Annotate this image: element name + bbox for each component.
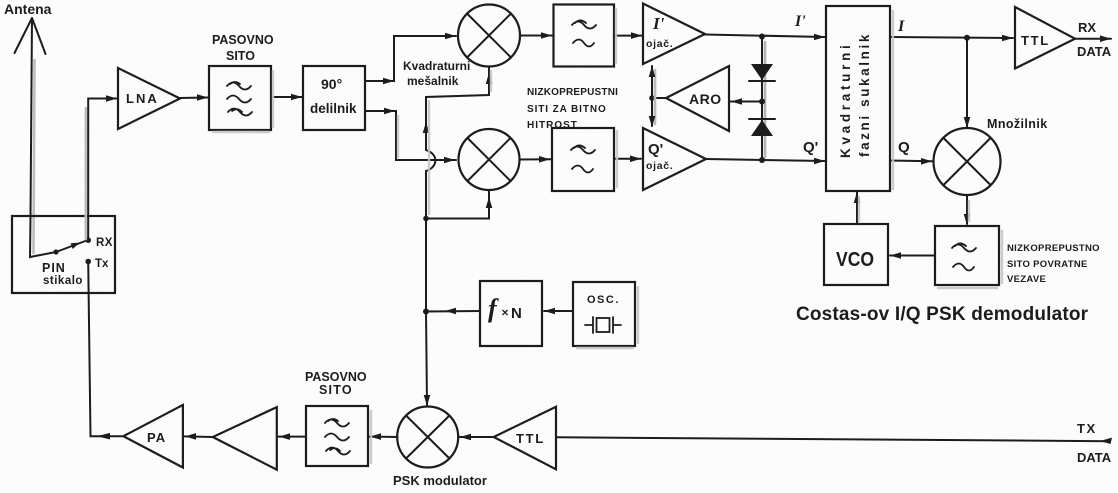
wire I' amp output to phase shifter	[705, 35, 825, 38]
svg-text:I: I	[897, 18, 905, 35]
diode upper (pointing down)	[751, 64, 773, 80]
svg-text:SITO: SITO	[226, 49, 255, 63]
svg-text:TX: TX	[1077, 421, 1097, 436]
wire I output to TTL	[890, 37, 1013, 38]
divider 90 delilnik	[303, 66, 365, 130]
oscillator OSC box	[573, 282, 635, 346]
wire antenna shadow	[34, 60, 35, 253]
svg-text:LNA: LNA	[126, 91, 159, 106]
filter lowpass Q (bit-rate)	[552, 128, 614, 191]
wire driver to PA	[185, 435, 213, 438]
svg-text:SITO POVRATNE: SITO POVRATNE	[1007, 259, 1088, 270]
amplifier PA	[123, 405, 182, 468]
svg-text:Q: Q	[898, 139, 910, 156]
wire divider top output	[365, 36, 456, 81]
filter lowpass I (bit-rate)	[554, 5, 615, 67]
svg-text:PASOVNO: PASOVNO	[212, 33, 274, 47]
node Tx contact	[85, 259, 91, 265]
svg-text:stikalo: stikalo	[43, 275, 83, 287]
svg-text:SITI ZA BITNO: SITI ZA BITNO	[527, 104, 607, 115]
svg-text:Tx: Tx	[95, 258, 109, 270]
wire multiplier to feedback filter	[966, 195, 968, 224]
wire PA to switch Tx	[88, 262, 123, 437]
svg-text:OSC.: OSC.	[587, 294, 620, 306]
node diode mid junction	[759, 99, 765, 105]
mixer upper (quadrature)	[458, 5, 520, 67]
wire Q' amp output to phase shifter	[706, 159, 825, 161]
diode lower (pointing up)	[749, 118, 775, 120]
wire divider bottom output	[365, 111, 456, 160]
wire I filter to I' amp	[614, 35, 642, 37]
phase shifter Kvadraturni fazni sukalnik	[826, 6, 890, 191]
wire antenna into switch	[30, 216, 56, 257]
svg-text:DATA: DATA	[1077, 450, 1112, 465]
wire Q filter to Q' amp	[614, 158, 641, 160]
node switch pivot	[53, 249, 58, 254]
node diode bottom junction	[759, 157, 765, 163]
amplifier ARO (AGC)	[666, 66, 729, 131]
svg-text:NIZKOPREPUSTNO: NIZKOPREPUSTNO	[1007, 243, 1100, 254]
svg-text:PA: PA	[147, 430, 166, 445]
svg-text:ojač.: ojač.	[646, 38, 673, 50]
wire AGC to I' amp	[651, 66, 653, 98]
svg-text:VEZAVE: VEZAVE	[1007, 274, 1046, 285]
svg-text:TTL: TTL	[516, 431, 545, 446]
wire LO to lower mixer	[426, 191, 489, 219]
amplifier Q' ojac	[643, 128, 706, 190]
svg-text:Kvadraturni: Kvadraturni	[838, 42, 853, 158]
wire TX DATA line	[557, 437, 1110, 441]
svg-text:SITO: SITO	[319, 383, 353, 397]
svg-text:90°: 90°	[321, 76, 342, 92]
svg-text:fazni sukalnik: fazni sukalnik	[857, 32, 872, 157]
diode chain vertical wire	[761, 37, 763, 161]
svg-text:Q': Q'	[648, 141, 663, 158]
wire hop over Q RF line	[426, 150, 435, 171]
svg-text:ojač.: ojač.	[646, 160, 673, 172]
wire ARO apex to tap	[652, 97, 666, 99]
wire VCO to phase shifter	[856, 192, 858, 224]
wire bandpass to 90deg divider	[271, 96, 302, 98]
buffer TTL (RX)	[1015, 7, 1075, 69]
filter bandpass PASOVNO SITO (top)	[209, 66, 271, 130]
wire PSK modulator to TX bandpass	[370, 436, 398, 438]
scan ghost edges	[212, 8, 1002, 464]
mixer PSK modulator	[397, 407, 458, 468]
wire lower mixer to Q filter	[520, 158, 552, 160]
wire RX riser shadow	[85, 108, 88, 239]
svg-text:RX: RX	[1078, 20, 1096, 35]
wire OSC to fxN	[544, 310, 573, 312]
svg-text:delilnik: delilnik	[310, 101, 357, 116]
node diode top junction	[759, 34, 765, 40]
svg-text:VCO: VCO	[836, 249, 874, 271]
mixer lower (quadrature)	[459, 129, 520, 190]
wire RX DATA out	[1075, 38, 1111, 40]
svg-text:I': I'	[794, 13, 806, 30]
svg-text:DATA: DATA	[1077, 44, 1112, 59]
wire ARO input from diode tap	[729, 101, 761, 103]
svg-text:Q': Q'	[803, 139, 818, 156]
wire LNA to bandpass	[180, 97, 208, 100]
svg-text:PIN: PIN	[42, 261, 66, 275]
wire RX contact to LNA	[88, 99, 117, 241]
svg-text:RX: RX	[96, 237, 113, 249]
antenna Antena	[15, 18, 46, 216]
wire I branch to multiplier	[966, 38, 968, 127]
node RX contact	[85, 237, 91, 243]
wire LO riser from synthesizer	[426, 67, 489, 312]
wire upper mixer to I filter	[520, 35, 552, 37]
wire bandpass to driver amp	[279, 436, 307, 438]
wire AGC vertical shadow	[654, 70, 657, 124]
svg-text:Costas-ov I/Q PSK demodulator: Costas-ov I/Q PSK demodulator	[796, 304, 1089, 325]
wire fxN to LO junction	[426, 310, 480, 313]
amplifier LNA	[118, 68, 180, 129]
svg-text:mešalnik: mešalnik	[407, 74, 459, 88]
node LO junction at fxN	[423, 309, 429, 315]
svg-text:TTL: TTL	[1021, 33, 1050, 48]
svg-text:NIZKOPREPUSTNI: NIZKOPREPUSTNI	[527, 87, 618, 98]
svg-text:N: N	[511, 305, 522, 322]
amplifier driver	[213, 407, 277, 470]
crystal symbol	[585, 317, 621, 333]
wire TTL to PSK modulator	[460, 436, 494, 438]
wire AGC to Q' amp	[651, 98, 653, 126]
filter bandpass PASOVNO SITO (bottom)	[306, 406, 368, 466]
filter lowpass feedback	[935, 226, 999, 285]
svg-text:Antena: Antena	[4, 1, 52, 17]
oscillator VCO	[824, 224, 888, 285]
synthesizer fxN box	[480, 281, 542, 346]
buffer TTL (TX)	[494, 407, 556, 470]
svg-text:HITROST: HITROST	[527, 120, 578, 131]
svg-text:PASOVNO: PASOVNO	[305, 370, 367, 384]
svg-text:Kvadraturni: Kvadraturni	[403, 59, 470, 73]
wire Q output to multiplier	[890, 160, 932, 163]
amplifier I' ojac	[643, 4, 705, 65]
svg-text:Množilnik: Množilnik	[987, 117, 1048, 131]
wire LO down to PSK modulator	[426, 312, 427, 406]
svg-text:×: ×	[502, 306, 509, 320]
mixer multiplier Mnozilnik	[934, 128, 1001, 195]
svg-text:PSK modulator: PSK modulator	[393, 473, 487, 488]
svg-text:I': I'	[652, 14, 665, 33]
node LO branch junction	[423, 216, 429, 222]
node AGC tap	[649, 95, 655, 101]
svg-text:ARO: ARO	[689, 91, 722, 107]
wire switch arm	[56, 240, 88, 252]
PIN switch box	[12, 216, 115, 293]
node I branch	[964, 35, 970, 41]
wire feedback filter to VCO	[890, 255, 935, 257]
